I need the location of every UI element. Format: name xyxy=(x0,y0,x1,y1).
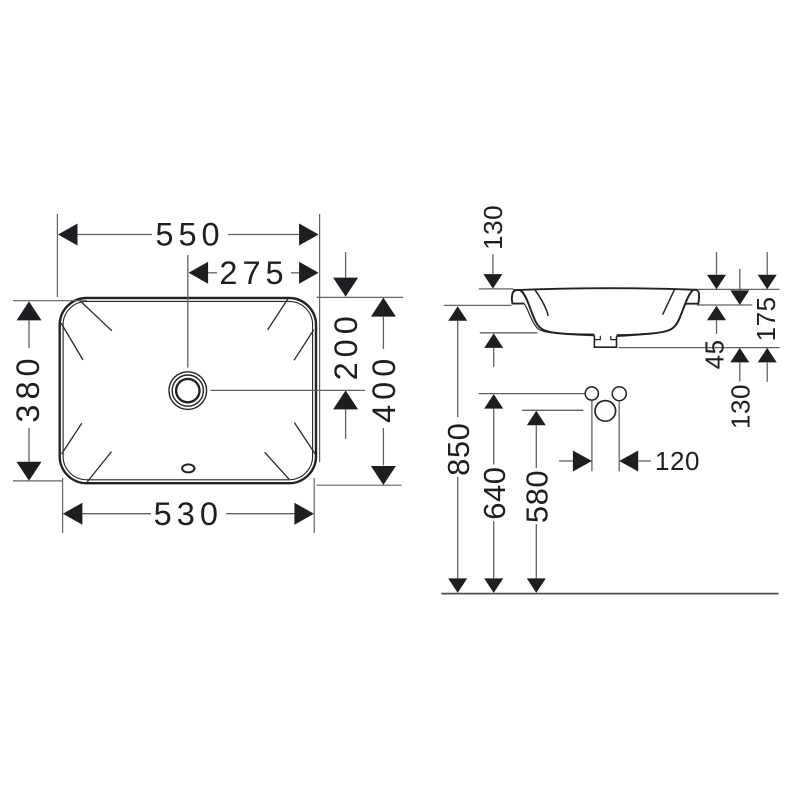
basin profile left inner bowl wall xyxy=(521,290,595,335)
svg-text:850: 850 xyxy=(441,423,476,476)
dimension 130 right xyxy=(725,269,755,429)
basin profile rim top xyxy=(513,288,697,290)
reference line small-hole centers xyxy=(479,393,585,395)
dimension 45 xyxy=(700,252,730,369)
svg-text:120: 120 xyxy=(655,446,700,476)
svg-text:400: 400 xyxy=(366,354,402,423)
extension line bottom-left (380 bottom) xyxy=(13,480,62,482)
dimension 550 xyxy=(58,217,319,253)
svg-text:130: 130 xyxy=(725,384,755,429)
reference line big-hole center xyxy=(522,409,583,411)
corner hatch top-right xyxy=(268,297,314,360)
drain centerline horizontal xyxy=(211,389,366,391)
corner hatch bottom-left xyxy=(62,423,112,482)
faucet hole small left xyxy=(585,387,598,400)
overflow hole xyxy=(182,464,194,472)
reference line rim-top left xyxy=(479,288,514,290)
reference line rim-bottom right xyxy=(697,304,752,306)
svg-text:580: 580 xyxy=(519,470,554,523)
faucet hole big xyxy=(595,401,616,422)
svg-text:175: 175 xyxy=(751,296,781,341)
extension line top-left (380 top) xyxy=(13,300,87,302)
dimension 200 xyxy=(328,252,364,439)
dimension 640 xyxy=(477,394,512,593)
svg-text:130: 130 xyxy=(478,205,508,250)
basin profile right outer shell xyxy=(617,304,687,335)
drain middle circle xyxy=(172,375,203,406)
extension line from small hole right xyxy=(618,401,620,471)
basin profile left rim beak xyxy=(512,290,524,304)
dimension 640 upper stub arrow xyxy=(484,333,503,367)
dimension 580 xyxy=(519,411,554,593)
dimension 380 xyxy=(10,301,46,480)
drain stub notch left xyxy=(594,336,600,340)
dimension 850 xyxy=(441,306,476,593)
extension line 530 right xyxy=(313,478,315,533)
extension line left (550/380) xyxy=(56,214,58,297)
basin inner outline xyxy=(63,301,313,479)
inner back-wall arc left xyxy=(535,290,548,316)
inner back-wall arc right xyxy=(663,289,675,314)
extension line top-right (200/400 top) xyxy=(317,296,404,298)
floor line xyxy=(441,593,778,595)
extension line bottom-right (400 bottom) xyxy=(317,484,402,486)
dimension 130 top xyxy=(478,205,508,289)
svg-text:380: 380 xyxy=(10,353,46,422)
svg-text:530: 530 xyxy=(154,496,223,532)
svg-text:200: 200 xyxy=(328,311,364,380)
drain centerline vertical xyxy=(187,255,189,368)
dimension 400 xyxy=(366,298,402,485)
svg-text:640: 640 xyxy=(477,466,512,519)
extension line right (550/275) xyxy=(319,214,321,462)
svg-text:45: 45 xyxy=(700,339,730,369)
faucet hole small right xyxy=(612,387,626,401)
dimension 275 xyxy=(189,255,319,291)
reference line bowl bottom left xyxy=(480,332,538,334)
drain stub xyxy=(594,335,616,347)
dimension 120 xyxy=(559,446,700,476)
svg-text:550: 550 xyxy=(155,217,224,253)
dimension 175 xyxy=(751,252,781,382)
drain outer circle xyxy=(169,372,207,410)
drain inner circle xyxy=(176,379,199,402)
reference line drain-stub bottom xyxy=(619,347,780,349)
basin outer outline xyxy=(60,298,316,483)
basin profile right inner bowl wall xyxy=(617,290,694,336)
basin profile right rim beak xyxy=(686,290,699,304)
corner hatch bottom-right xyxy=(265,423,316,479)
drain stub notch right xyxy=(611,336,617,340)
basin profile left outer shell xyxy=(524,304,594,335)
extension line 530 left xyxy=(62,478,64,533)
dimension 530 xyxy=(63,496,314,532)
extension line from small hole left xyxy=(591,401,593,472)
reference line rim-top right xyxy=(697,288,780,290)
reference line rim-bottom left xyxy=(444,304,512,306)
svg-text:275: 275 xyxy=(219,255,288,291)
corner hatch top-left xyxy=(61,298,112,360)
